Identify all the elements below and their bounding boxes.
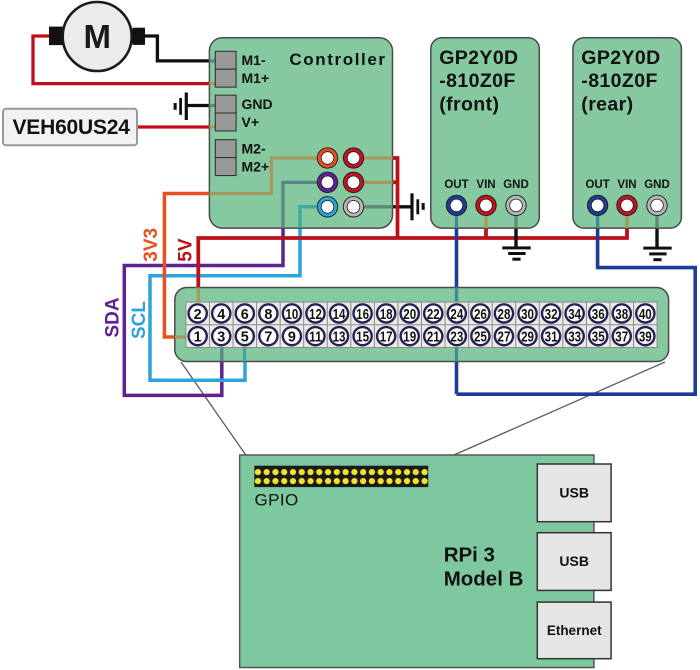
wire controller gray pin to ground black: [393, 205, 411, 208]
svg-text:3: 3: [217, 329, 225, 346]
svg-text:RPi 3: RPi 3: [444, 544, 495, 567]
wire 3V3 orange (controller to GPIO pin 1): [164, 194, 209, 338]
wire stub sensor front VIN: [484, 205, 487, 228]
wire motor M1+ red: [33, 36, 210, 84]
svg-text:5: 5: [241, 329, 249, 346]
wire VEH60US24 V+ red: [136, 125, 210, 128]
svg-text:1: 1: [194, 329, 202, 346]
wire SCL light blue (controller to GPIO pin 5): [150, 228, 300, 381]
svg-text:M1-: M1-: [242, 52, 266, 68]
svg-text:GP2Y0D: GP2Y0D: [439, 47, 518, 69]
svg-text:5V: 5V: [176, 238, 197, 262]
svg-text:GPIO: GPIO: [255, 491, 299, 510]
wire rear sensor GND black: [655, 228, 658, 248]
wire 5V stub front sensor VIN: [484, 228, 488, 239]
svg-text:16: 16: [356, 306, 369, 323]
controller pin P3 (purple): [317, 172, 337, 192]
sensor front pin VIN: [476, 195, 496, 215]
svg-text:20: 20: [403, 306, 416, 323]
svg-text:GND: GND: [644, 179, 670, 191]
wire controller GND to ground black: [187, 104, 211, 107]
RPi GPIO strip (pin header): [254, 466, 428, 487]
svg-text:6: 6: [241, 306, 249, 323]
GPIO pin 15: [353, 326, 373, 346]
GPIO pin 31: [541, 326, 561, 346]
svg-text:32: 32: [545, 306, 558, 323]
GPIO pin 40: [635, 303, 655, 323]
svg-text:M2+: M2+: [242, 158, 270, 174]
svg-text:3V3: 3V3: [141, 228, 162, 262]
wire stub olive: 5V to pin 2: [197, 288, 200, 305]
svg-text:VIN: VIN: [476, 179, 495, 191]
GPIO pin 7: [258, 326, 278, 346]
GPIO pin 25: [470, 326, 490, 346]
wire stub olive: orange pin to left edge (3V3 inside controller): [209, 158, 327, 194]
svg-text:13: 13: [333, 329, 346, 346]
svg-text:(rear): (rear): [581, 93, 633, 115]
sensor GP2Y0D-810Z0F (front) body: [431, 38, 540, 228]
GPIO pin 36: [588, 303, 608, 323]
wire stub teal: blue pin down (SCL inside controller): [300, 207, 328, 228]
wire stub sensor rear OUT: [596, 205, 599, 228]
svg-text:18: 18: [380, 306, 393, 323]
svg-text:-810Z0F: -810Z0F: [439, 70, 516, 92]
svg-text:35: 35: [592, 329, 605, 346]
svg-text:21: 21: [427, 329, 440, 346]
controller pin P2 (red): [343, 148, 363, 168]
wire stub teal: SCL to pin 5: [243, 347, 246, 361]
wire stub sensor rear VIN: [625, 205, 628, 228]
wire stub dark: M1- pad: [209, 59, 216, 62]
svg-text:VEH60US24: VEH60US24: [13, 116, 131, 139]
GPIO pin 26: [470, 303, 490, 323]
controller pad M1+: [215, 69, 269, 87]
GPIO pin 5: [235, 326, 255, 346]
sensor GP2Y0D-810Z0F (rear) body: [573, 38, 682, 228]
controller pad GND: [215, 95, 272, 113]
controller pad M2-: [215, 140, 266, 158]
ground symbol left (controller GND): [174, 93, 188, 121]
svg-text:19: 19: [403, 329, 416, 346]
motor M: [49, 2, 145, 71]
GPIO pin 4: [211, 303, 231, 323]
wire 5V stub from controller second red pin: [392, 180, 397, 184]
GPIO pin 18: [376, 303, 396, 323]
wire stub olive: red pin1 to right edge: [354, 156, 393, 159]
GPIO pin 38: [612, 303, 632, 323]
wire front sensor OUT navy to GPIO pin 24: [455, 228, 459, 288]
svg-text:GND: GND: [242, 96, 273, 112]
svg-text:7: 7: [264, 329, 272, 346]
svg-text:11: 11: [309, 329, 322, 346]
svg-text:29: 29: [521, 329, 534, 346]
svg-text:33: 33: [568, 329, 581, 346]
svg-text:22: 22: [427, 306, 440, 323]
GPIO header J1 body: [175, 288, 669, 362]
sensor rear pin GND: [647, 195, 667, 215]
svg-text:23: 23: [450, 329, 463, 346]
wire front/rear OUT navy below header: [455, 361, 459, 394]
GPIO pin 29: [518, 326, 538, 346]
svg-text:V+: V+: [242, 114, 260, 130]
RPi board label: [444, 544, 524, 591]
sensor front label: [439, 47, 518, 115]
controller pin P1 (orange): [317, 148, 337, 168]
svg-text:36: 36: [592, 306, 605, 323]
wire motor M1- black: [144, 36, 212, 61]
svg-text:31: 31: [545, 329, 558, 346]
wire stub slate: purple pin down (SDA inside controller): [283, 182, 328, 228]
GPIO pin 17: [376, 326, 396, 346]
svg-text:14: 14: [333, 306, 346, 323]
svg-text:M1+: M1+: [242, 70, 270, 86]
GPIO header pin grid: [186, 302, 657, 347]
wire stub olive: red pin2 to right edge: [354, 181, 393, 184]
svg-text:8: 8: [264, 306, 272, 323]
callout line right (GPIO header to RPi GPIO strip): [429, 362, 665, 466]
svg-text:27: 27: [498, 329, 511, 346]
GPIO pin 23: [447, 326, 467, 346]
svg-text:10: 10: [285, 306, 298, 323]
GPIO pin 33: [565, 326, 585, 346]
wire stub sensor rear GND: [655, 205, 658, 228]
wire stub slate: SDA to pin 3: [220, 347, 223, 361]
power supply VEH60US24: [3, 109, 137, 146]
ground symbol rear sensor: [643, 247, 671, 262]
GPIO pin 2: [188, 303, 208, 323]
svg-text:SCL: SCL: [129, 301, 150, 339]
GPIO pin 37: [612, 326, 632, 346]
svg-text:25: 25: [474, 329, 487, 346]
svg-text:30: 30: [521, 306, 534, 323]
svg-text:37: 37: [615, 329, 628, 346]
controller pin P4 (red): [343, 172, 363, 192]
wire stub olive: V+ pad: [209, 125, 216, 128]
GPIO pin 21: [423, 326, 443, 346]
GPIO pin 10: [282, 303, 302, 323]
svg-text:GND: GND: [503, 179, 529, 191]
controller pad M1-: [215, 51, 266, 69]
svg-text:OUT: OUT: [444, 179, 468, 191]
GPIO pin 11: [305, 326, 325, 346]
svg-text:M: M: [83, 18, 111, 55]
sensor front pin OUT: [446, 195, 466, 215]
GPIO pin 1: [188, 326, 208, 346]
svg-text:38: 38: [615, 306, 628, 323]
wire stub dark: GND pad: [209, 104, 216, 107]
GPIO pin 24: [447, 303, 467, 323]
GPIO pin 16: [353, 303, 373, 323]
wire SDA purple (controller to GPIO pin 3): [124, 228, 283, 396]
GPIO pin 13: [329, 326, 349, 346]
GPIO pin 12: [305, 303, 325, 323]
GPIO pin 3: [211, 326, 231, 346]
svg-text:(front): (front): [439, 93, 499, 115]
svg-text:9: 9: [288, 329, 296, 346]
wire 5V dark red vertical from controller right pins: [392, 158, 397, 238]
svg-text:40: 40: [639, 306, 652, 323]
svg-text:15: 15: [356, 329, 369, 346]
GPIO pin 35: [588, 326, 608, 346]
GPIO pin 14: [329, 303, 349, 323]
ground symbol right (controller): [410, 193, 424, 220]
wire rear sensor OUT navy loop to GPIO pin 23: [457, 228, 696, 395]
svg-text:M2-: M2-: [242, 141, 266, 157]
GPIO pin 9: [282, 326, 302, 346]
sensor rear pin VIN: [617, 195, 637, 215]
GPIO pin 19: [400, 326, 420, 346]
svg-text:39: 39: [639, 329, 652, 346]
svg-text:17: 17: [380, 329, 393, 346]
svg-text:28: 28: [498, 306, 511, 323]
wire stub steel: rear OUT at pin 23 (bottom): [455, 347, 458, 361]
GPIO pin 39: [635, 326, 655, 346]
wire stub olive: M1+ pad: [209, 82, 216, 85]
wire stub olive: 3V3 to pin 1: [175, 335, 191, 338]
RPi Ethernet port: [537, 602, 611, 659]
RPi USB port 1: [537, 464, 611, 522]
svg-text:OUT: OUT: [585, 179, 609, 191]
svg-text:VIN: VIN: [617, 179, 636, 191]
GPIO pin 22: [423, 303, 443, 323]
GPIO pin 6: [235, 303, 255, 323]
wire stub steel: front OUT at pin 24 (top): [455, 288, 458, 304]
wire 5V bus horizontal to sensors and GPIO pin 2: [198, 228, 627, 289]
svg-text:24: 24: [450, 306, 463, 323]
wire stub dark: gray pin to right edge (GND inside controller): [354, 205, 393, 208]
svg-text:SDA: SDA: [102, 297, 123, 337]
GPIO pin 32: [541, 303, 561, 323]
svg-text:2: 2: [194, 306, 202, 323]
controller U1 body: [209, 38, 392, 228]
svg-text:Controller: Controller: [289, 50, 386, 69]
controller pad M2+: [215, 158, 269, 176]
svg-text:-810Z0F: -810Z0F: [581, 70, 658, 92]
Raspberry Pi 3 board: [240, 455, 594, 668]
svg-text:USB: USB: [559, 485, 589, 501]
RPi USB port 2: [537, 533, 611, 591]
GPIO pin 28: [494, 303, 514, 323]
svg-text:4: 4: [217, 306, 226, 323]
svg-text:26: 26: [474, 306, 487, 323]
callout line left (GPIO header to RPi GPIO strip): [181, 362, 255, 468]
wire front sensor GND black: [514, 228, 517, 248]
GPIO pin 27: [494, 326, 514, 346]
GPIO pin 8: [258, 303, 278, 323]
svg-text:Ethernet: Ethernet: [547, 623, 602, 638]
sensor rear pin OUT: [587, 195, 607, 215]
svg-text:12: 12: [309, 306, 322, 323]
svg-text:USB: USB: [559, 553, 589, 569]
sensor rear label: [581, 47, 660, 115]
wire stub sensor front OUT: [455, 205, 458, 228]
GPIO pin 30: [518, 303, 538, 323]
ground symbol front sensor: [502, 246, 530, 260]
controller pad V+: [215, 113, 259, 131]
controller pin P5 (blue): [317, 197, 337, 217]
wire stub sensor front GND: [514, 205, 517, 228]
svg-text:34: 34: [568, 306, 581, 323]
svg-text:GP2Y0D: GP2Y0D: [581, 47, 660, 69]
GPIO pin 20: [400, 303, 420, 323]
sensor front pin GND: [506, 195, 526, 215]
svg-text:Model B: Model B: [444, 567, 524, 590]
GPIO pin 34: [565, 303, 585, 323]
controller pin P6 (gray): [343, 197, 363, 217]
